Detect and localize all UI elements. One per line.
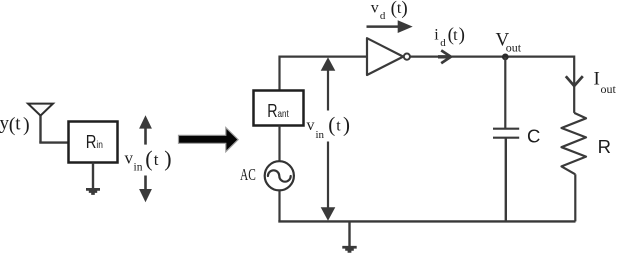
block arrow (transform) <box>179 128 239 152</box>
ground (main) <box>342 221 356 252</box>
label y(t) <box>0 113 30 136</box>
label i_d(t) <box>434 25 465 50</box>
svg-text:out: out <box>506 41 522 55</box>
arrowhead i_d(t) on wire <box>438 50 451 63</box>
arrow v_in(t) up (main) <box>321 57 336 110</box>
svg-text:R: R <box>598 136 611 157</box>
svg-text:in: in <box>134 162 143 174</box>
AC source V1 <box>265 161 294 190</box>
arrowhead I_out on wire <box>566 76 583 86</box>
svg-text:): ) <box>164 146 171 171</box>
svg-text:i: i <box>434 26 439 43</box>
svg-text:): ) <box>401 0 407 19</box>
label v_d(t) <box>371 0 408 22</box>
wire AC source to ground rail <box>278 190 280 221</box>
label v_in(t) (left) <box>125 146 172 174</box>
svg-text:I: I <box>594 69 600 90</box>
bottom rail wire <box>278 220 575 222</box>
inverter bubble <box>404 54 410 60</box>
svg-text:out: out <box>601 82 617 96</box>
arrow v_in(t) down (main) <box>321 142 336 221</box>
arrow v_in(t) up (left) <box>139 115 152 144</box>
capacitor C <box>493 57 519 138</box>
resistor block R_in <box>69 122 118 163</box>
svg-text:AC: AC <box>240 165 256 184</box>
node V_out (junction dot) <box>502 54 509 61</box>
svg-text:t: t <box>154 150 159 169</box>
wire resistor to rail <box>574 174 576 221</box>
arrow v_in(t) down (left) <box>139 176 152 203</box>
svg-text:): ) <box>23 114 30 136</box>
wire amplifier output to V_out and resistor branch <box>410 57 574 113</box>
svg-text:v: v <box>125 149 134 168</box>
antenna AN1 <box>28 104 53 143</box>
svg-text:v: v <box>307 117 315 134</box>
svg-text:(: ( <box>145 146 152 171</box>
svg-text:v: v <box>371 0 379 16</box>
svg-text:d: d <box>380 10 386 22</box>
resistor R <box>562 113 587 174</box>
wire capacitor to rail <box>505 138 507 221</box>
wire R_ant top to amplifier input <box>280 57 367 91</box>
svg-text:t: t <box>453 27 458 44</box>
svg-text:C: C <box>527 126 540 147</box>
resistor block R_ant <box>254 91 304 126</box>
arrow v_d(t) <box>367 20 413 33</box>
op-amp buffer U1 <box>367 38 403 75</box>
wire R_ant to AC source <box>278 126 280 162</box>
svg-text:): ) <box>459 25 465 46</box>
wire antenna to R_in <box>39 141 68 143</box>
svg-text:t: t <box>15 114 21 135</box>
svg-text:in: in <box>316 129 325 141</box>
svg-text:): ) <box>343 113 350 137</box>
label v_in(t) (main) <box>307 113 351 141</box>
ground (left diagram) <box>86 163 100 195</box>
svg-text:t: t <box>336 118 341 135</box>
svg-text:d: d <box>440 37 446 49</box>
svg-text:(: ( <box>328 113 335 137</box>
